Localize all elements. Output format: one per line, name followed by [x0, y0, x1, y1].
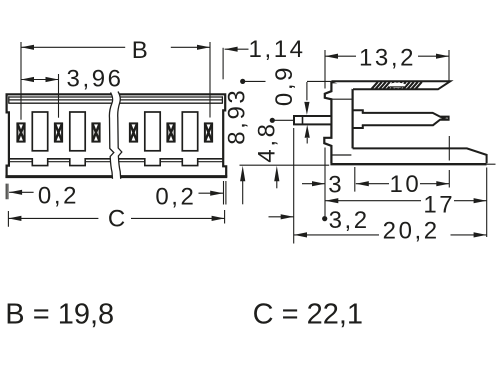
dimension C line	[8, 217, 224, 219]
strip top line	[9, 161, 223, 163]
svg-text:10: 10	[389, 171, 421, 198]
svg-text:C = 22,1: C = 22,1	[253, 298, 363, 330]
side view body inner line upper	[331, 98, 352, 100]
middle pin shaft	[362, 113, 449, 125]
housing bottom edge	[5, 175, 227, 178]
dimension 8,93 extension line top with dot	[243, 80, 331, 82]
slot 4	[145, 112, 160, 151]
housing front view outline	[7, 94, 227, 176]
slot 2	[70, 112, 85, 151]
side view body inner line lower	[331, 154, 351, 156]
contact 2	[55, 123, 62, 141]
dimension 0,2 left arrow	[9, 191, 33, 193]
svg-text:3: 3	[328, 171, 344, 198]
svg-text:0,2: 0,2	[38, 183, 79, 210]
svg-text:4,8: 4,8	[254, 121, 281, 162]
svg-text:B: B	[132, 37, 151, 64]
svg-text:8,93: 8,93	[224, 88, 251, 145]
dimension 3,2 arrow and dot	[269, 216, 294, 218]
dimension 8,93 arrow	[242, 181, 244, 204]
svg-text:13,2: 13,2	[359, 44, 416, 71]
slot 1	[32, 112, 47, 151]
top blade pin	[331, 81, 450, 89]
dimension 0,2 right arrow	[199, 192, 224, 194]
dimension 3,96 extension line	[58, 74, 60, 118]
dimension 17 line	[325, 200, 486, 202]
slot 5	[182, 112, 197, 151]
svg-text:20,2: 20,2	[383, 218, 440, 245]
contact 1	[17, 123, 24, 141]
svg-text:0,2: 0,2	[155, 184, 196, 211]
dimension C extension lines	[8, 210, 224, 227]
break gap white-out	[109, 92, 121, 179]
svg-text:1,14: 1,14	[249, 36, 306, 63]
dimension 13,2 extension lines	[325, 50, 449, 89]
dimension 3 arrow and extension lines	[325, 148, 355, 217]
dimension B line	[21, 46, 210, 48]
pcb leg	[353, 148, 487, 163]
dimension B extension lines	[21, 42, 210, 120]
dimension 1,14 arrow	[225, 48, 249, 50]
solder tail end cap line	[302, 116, 304, 124]
side view body	[324, 82, 352, 163]
contact 3	[92, 123, 99, 141]
top blade hatching	[372, 82, 422, 89]
svg-text:17: 17	[423, 191, 455, 218]
dimension 17 and 20,2 extension line right	[486, 168, 488, 238]
dimension 4,8 dot and pin center extension	[270, 118, 275, 123]
dimension 4,8 arrow	[276, 181, 278, 188]
middle pin tip chevron	[440, 117, 444, 120]
contact 4	[130, 123, 137, 141]
top band inner lines	[9, 96, 223, 104]
dimension 20,2 line	[294, 234, 487, 236]
svg-text:3,96: 3,96	[67, 66, 124, 93]
shelf castellated line	[9, 159, 223, 166]
seating line stub right	[487, 163, 496, 165]
dimension 0,2 right double extension lines	[224, 181, 226, 205]
body and leg bottom edge	[330, 163, 486, 165]
dimension 0,9 arrows	[306, 82, 308, 100]
break line left	[109, 93, 113, 179]
middle pin collar	[353, 110, 363, 128]
contact 6	[205, 123, 212, 141]
dimension 10 line	[356, 183, 450, 185]
blade hole lens	[389, 83, 406, 88]
dimension 0,2 left double extension lines	[6, 184, 8, 200]
break line right	[118, 92, 122, 179]
contact 5	[167, 123, 174, 141]
dimension 3,96 line	[21, 79, 59, 81]
svg-text:B = 19,8: B = 19,8	[5, 298, 114, 330]
svg-text:0,9: 0,9	[271, 65, 298, 106]
svg-text:3,2: 3,2	[329, 207, 370, 234]
dimension 10 extension line	[448, 136, 450, 188]
dimension 1,14 extension line	[222, 48, 224, 80]
seating extension line	[240, 164, 330, 166]
solder tail pin left	[294, 116, 331, 124]
dimension 13,2 line	[325, 55, 449, 57]
dimension 3,2 extension line (pin tip)	[293, 128, 295, 244]
svg-text:C: C	[108, 206, 128, 233]
